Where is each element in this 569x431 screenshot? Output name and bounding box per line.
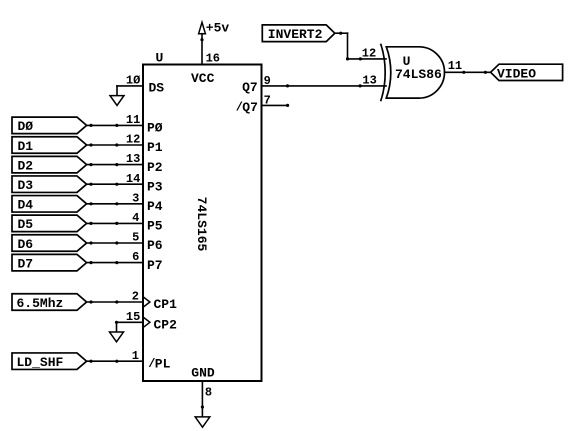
wire +5v to pin 16: [200, 34, 203, 65]
svg-text:1Ø: 1Ø: [126, 74, 140, 88]
svg-text:12: 12: [126, 133, 140, 147]
XOR input arc: [381, 45, 385, 101]
pin name /Q7: [236, 100, 258, 115]
clock marker CP2: [143, 317, 150, 328]
net flag D3: [12, 176, 87, 193]
svg-text:PØ: PØ: [147, 121, 163, 136]
ground symbol (DS): [110, 96, 124, 106]
IC U 74LS165 body: [143, 65, 262, 382]
svg-text:D3: D3: [18, 178, 34, 193]
svg-text:P1: P1: [147, 140, 163, 155]
svg-text:74LS86: 74LS86: [395, 67, 442, 82]
svg-text:P7: P7: [147, 258, 163, 273]
svg-text:INVERT2: INVERT2: [268, 27, 323, 42]
wire D4 to pin 3: [87, 202, 143, 205]
wire /Q7 stub: [262, 104, 290, 107]
svg-text:CP1: CP1: [154, 297, 178, 312]
svg-text:CP2: CP2: [154, 318, 178, 333]
svg-text:Q7: Q7: [242, 80, 258, 95]
net flag D6: [12, 235, 87, 252]
net flag 6.5Mhz: [12, 294, 87, 311]
wire D3 to pin 14: [87, 183, 143, 186]
svg-text:D7: D7: [18, 256, 34, 271]
svg-text:14: 14: [126, 172, 140, 186]
svg-text:LD_SHF: LD_SHF: [17, 355, 64, 370]
net flag INVERT2: [262, 25, 335, 42]
svg-text:D4: D4: [18, 198, 34, 213]
wire ground to pin 15 CP2: [115, 321, 143, 332]
wire D7 to pin 6: [87, 261, 143, 264]
wire XOR pin 11 to VIDEO: [445, 71, 491, 74]
svg-text:VIDEO: VIDEO: [497, 67, 536, 82]
net flag LD_SHF: [12, 353, 87, 370]
net flag D7: [12, 254, 87, 271]
svg-text:4: 4: [132, 211, 139, 225]
wire D0 to pin 11: [87, 124, 143, 127]
net flag D0: [12, 117, 87, 134]
svg-text:13: 13: [126, 152, 140, 166]
svg-text:5: 5: [132, 231, 139, 245]
wire D1 to pin 12: [87, 143, 143, 146]
svg-text:U: U: [156, 51, 164, 66]
svg-text:2: 2: [132, 290, 139, 304]
svg-text:6: 6: [132, 250, 139, 264]
wire D5 to pin 4: [87, 222, 143, 225]
ground symbol (CP2): [110, 332, 124, 342]
svg-text:8: 8: [205, 386, 212, 400]
svg-text:GND: GND: [191, 365, 215, 380]
svg-text:P4: P4: [147, 199, 163, 214]
svg-text:D6: D6: [18, 237, 34, 252]
wire pin 8 GND to ground: [201, 381, 204, 417]
svg-text:3: 3: [132, 191, 139, 205]
clock marker CP1: [143, 297, 150, 308]
svg-text:DS: DS: [149, 80, 165, 95]
net flag D5: [12, 215, 87, 232]
svg-text:D5: D5: [18, 217, 34, 232]
wire ground to pin 10 DS: [117, 86, 143, 96]
svg-text:15: 15: [126, 310, 140, 324]
svg-text:+5v: +5v: [206, 21, 230, 36]
svg-text:P6: P6: [147, 238, 163, 253]
svg-text:D1: D1: [18, 139, 34, 154]
wire D2 to pin 13: [87, 163, 143, 166]
net flag D2: [12, 156, 87, 173]
svg-text:11: 11: [448, 59, 462, 73]
ground symbol (pin 8): [195, 417, 210, 427]
power symbol +5v: [199, 22, 206, 33]
svg-text:PL: PL: [155, 356, 171, 371]
svg-text:74LS165: 74LS165: [194, 197, 209, 252]
svg-text:13: 13: [362, 74, 376, 88]
net flag VIDEO: [491, 64, 563, 82]
svg-text:VCC: VCC: [191, 71, 215, 86]
net flag D4: [12, 196, 87, 213]
svg-text:6.5Mhz: 6.5Mhz: [17, 296, 64, 311]
net flag D1: [12, 137, 87, 154]
svg-text:11: 11: [126, 113, 140, 127]
pin name /PL: [148, 356, 170, 371]
wire LD_SHF to pin 1: [87, 360, 143, 363]
svg-text:1: 1: [132, 349, 139, 363]
svg-text:Q7: Q7: [242, 100, 258, 115]
svg-text:12: 12: [362, 47, 376, 61]
svg-text:D2: D2: [18, 158, 34, 173]
wire 6.5Mhz to pin 2: [87, 300, 143, 303]
wire INVERT2 to XOR pin 12: [335, 32, 386, 61]
wire D6 to pin 5: [87, 241, 143, 244]
svg-text:DØ: DØ: [18, 119, 34, 134]
svg-text:P3: P3: [147, 179, 163, 194]
op XOR gate U 74LS86 body: [386, 47, 444, 98]
svg-text:P5: P5: [147, 219, 163, 234]
wire Q7 pin 9 to XOR pin 13: [262, 84, 387, 87]
svg-text:P2: P2: [147, 160, 163, 175]
svg-text:16: 16: [206, 52, 220, 66]
